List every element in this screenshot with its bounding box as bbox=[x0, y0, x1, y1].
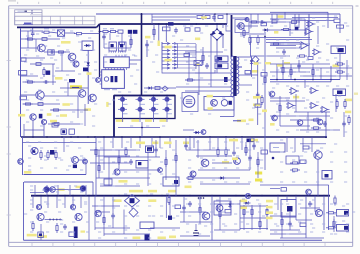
pin bus vertical x203 bbox=[202, 47, 204, 65]
transistor bbox=[165, 107, 169, 111]
yellow top 2 bbox=[284, 62, 290, 64]
sheet border inner bottom bbox=[9, 241, 353, 243]
yellow label bbox=[58, 188, 65, 191]
vertical x68 bbox=[67, 82, 69, 96]
vertical x336 bbox=[335, 94, 337, 112]
diode bbox=[194, 131, 201, 134]
yellow label bbox=[333, 65, 339, 68]
bridge rectifier diamond bbox=[211, 29, 223, 40]
yellow value label bbox=[55, 77, 63, 80]
yellow label top chain bbox=[201, 16, 207, 18]
capacitor bbox=[154, 147, 158, 153]
resistor bbox=[282, 65, 284, 75]
wire to bottom rail 2 bbox=[88, 208, 90, 240]
U2 dark bar 2 bbox=[115, 76, 118, 82]
yellow label bbox=[232, 158, 238, 161]
mid bus C bbox=[21, 136, 326, 138]
bus C end dot bbox=[325, 136, 327, 138]
U2 dark bar 1 bbox=[111, 76, 114, 82]
yellow label bbox=[158, 237, 166, 240]
junction dot bbox=[165, 23, 167, 25]
vertical x95b bbox=[94, 212, 96, 230]
vertical x152 stub bbox=[151, 14, 153, 24]
vertical x251b bbox=[250, 14, 252, 28]
connector pin wire 7 bbox=[178, 64, 197, 66]
diode bbox=[87, 61, 90, 68]
wire row y88 bbox=[144, 87, 176, 89]
resistor bbox=[243, 28, 245, 38]
verticals bbox=[63, 137, 65, 152]
op-amp bbox=[314, 49, 320, 55]
part bbox=[188, 177, 193, 180]
transistor bbox=[68, 53, 76, 61]
capacitor bbox=[102, 34, 106, 40]
yellow label TR4 bbox=[160, 119, 167, 122]
yellow label bbox=[119, 180, 128, 183]
grid column wire 2 bbox=[139, 96, 141, 119]
vertical yellow strip x157 bbox=[158, 41, 160, 47]
connector pin wire 1 bbox=[178, 43, 197, 45]
box part 2 dark fill bbox=[174, 180, 178, 184]
wire y104 bbox=[23, 103, 61, 105]
wire y150 bbox=[90, 149, 140, 151]
top bus A double segment bbox=[270, 11, 328, 13]
relay box K1 bbox=[331, 46, 346, 54]
yellow label bbox=[87, 72, 92, 75]
top margin zone mark 6 bbox=[122, 2, 123, 4]
pin bus vertical x196 bbox=[195, 44, 197, 69]
vertical x313 bbox=[312, 64, 314, 80]
capacitor bbox=[297, 63, 301, 69]
wire y17 from x152 bbox=[152, 16, 196, 18]
electrolytic dark bar bbox=[74, 227, 78, 239]
resistor on bus 2 bbox=[69, 129, 74, 134]
junction dot bbox=[264, 36, 266, 38]
yellow label bbox=[345, 99, 352, 102]
connector pin wire 2 bbox=[178, 46, 197, 48]
top margin zone mark 2 bbox=[38, 2, 39, 4]
dark component bbox=[39, 114, 43, 119]
vertical x299 bbox=[298, 14, 300, 28]
transistor bbox=[201, 159, 209, 167]
vertical x257.7 bbox=[257, 60, 259, 125]
optocoupler U3 dark fill bbox=[218, 57, 223, 60]
wire y39 bbox=[21, 38, 61, 40]
transistor bbox=[315, 209, 322, 216]
vertical V1 from bus B bbox=[99, 24, 101, 77]
junction dot bbox=[158, 23, 160, 25]
connector pin wire 5 bbox=[178, 57, 197, 59]
grid text dash bbox=[141, 103, 146, 105]
dark part bbox=[168, 22, 174, 25]
IC pin hatches top bbox=[115, 55, 117, 57]
resistor bbox=[311, 127, 321, 129]
title table outline bbox=[15, 16, 95, 25]
vertical x156 bbox=[155, 140, 157, 157]
resistor bbox=[217, 147, 219, 157]
wire y88 bbox=[60, 87, 88, 89]
revision table text dark dash bbox=[25, 10, 28, 12]
yellow strip 3 bbox=[168, 190, 176, 193]
verticals right lower bbox=[286, 137, 288, 152]
wire to V1 bbox=[84, 33, 100, 35]
vertical x53 bbox=[52, 64, 54, 85]
resistor bbox=[264, 75, 266, 85]
title table column divider bbox=[41, 16, 43, 25]
transistor bbox=[120, 107, 124, 111]
capacitor bbox=[111, 213, 115, 219]
vertical x326 down to bus C bbox=[325, 112, 327, 137]
transistor bbox=[211, 99, 218, 106]
resistor bbox=[257, 35, 259, 45]
title table column divider bbox=[32, 16, 34, 25]
bridge bend wires bbox=[223, 24, 232, 31]
yellow top 1 bbox=[265, 62, 271, 64]
wire y68 bbox=[280, 67, 352, 69]
verticals mid lower bbox=[189, 137, 191, 150]
dark mark bbox=[62, 130, 65, 133]
dark fill r1 bbox=[344, 211, 348, 215]
blue text label bbox=[236, 66, 242, 68]
vertical x305b bbox=[304, 19, 306, 36]
resistor bbox=[130, 37, 132, 47]
part x258 y104 bbox=[255, 104, 261, 107]
resistor bbox=[55, 150, 57, 160]
resistor bbox=[279, 103, 281, 113]
resistor bbox=[168, 195, 170, 205]
dark IC fill bbox=[147, 147, 152, 151]
vertical x296 bbox=[295, 94, 297, 112]
connector pin 2 bbox=[162, 46, 170, 48]
part bbox=[118, 30, 123, 33]
vertical x251.5 bbox=[251, 57, 253, 77]
wire degauss 2 bbox=[185, 90, 232, 92]
revision table text bbox=[18, 10, 25, 12]
connector pin wire 8 bbox=[178, 67, 197, 69]
title table column divider bbox=[82, 16, 84, 25]
posistor big circle bbox=[183, 96, 195, 108]
bridge right drop bbox=[222, 35, 224, 49]
relay box bbox=[204, 97, 234, 111]
resistor on bus bbox=[61, 129, 66, 134]
small box with X bbox=[194, 61, 202, 66]
vertical x78 bbox=[77, 96, 79, 118]
wire y20.5 right bbox=[296, 20, 334, 22]
connector pin 4 bbox=[162, 53, 170, 55]
text under IC bbox=[104, 89, 110, 91]
resistor R15 bbox=[163, 27, 171, 31]
wire above bus bbox=[183, 129, 194, 131]
wire drain bbox=[44, 95, 78, 97]
vertical x162 bbox=[165, 196, 167, 218]
dark diode D4 bbox=[83, 68, 88, 72]
U2 inner circle bbox=[104, 77, 108, 81]
yellow label top bbox=[278, 15, 284, 18]
dark cap blob 2 bbox=[133, 30, 137, 34]
long vertical x96 bbox=[95, 137, 97, 196]
vertical x328.6 bbox=[328, 185, 330, 230]
grid junction dot bbox=[139, 95, 141, 97]
box part bbox=[140, 222, 154, 229]
verticals bottom right bbox=[277, 196, 279, 210]
wire y178 bbox=[96, 177, 150, 179]
op-amp bbox=[288, 102, 294, 108]
IC pin hatches bottom bbox=[105, 68, 107, 70]
resistor bbox=[245, 145, 247, 155]
box top right mid bbox=[286, 156, 299, 164]
connector pin wire 4 bbox=[178, 53, 197, 55]
resistor bbox=[56, 51, 66, 53]
wire y58 bbox=[21, 57, 46, 59]
vertical x283 bbox=[282, 60, 284, 80]
resistor bbox=[290, 169, 300, 171]
vertical x119 bbox=[118, 150, 120, 169]
grid text dash bbox=[168, 103, 173, 105]
resistor bbox=[202, 53, 204, 63]
X in box bbox=[194, 61, 202, 66]
dark box bbox=[50, 150, 54, 155]
title table column divider bbox=[59, 16, 61, 25]
transformer secondary winding arcs bbox=[237, 57, 239, 94]
sheet border outer top bbox=[9, 5, 353, 7]
wire bbox=[270, 188, 280, 190]
grid text dash 2 bbox=[168, 113, 173, 115]
connector pin 5 bbox=[162, 56, 170, 58]
bottom zone tick 8 bbox=[178, 242, 180, 246]
part bbox=[155, 87, 160, 90]
wire bbox=[21, 47, 38, 49]
capacitor bbox=[248, 155, 252, 161]
secondary parts 2 bbox=[261, 73, 267, 77]
wire cluster bbox=[55, 70, 75, 72]
capacitor bbox=[49, 50, 55, 54]
transformer bottom wire left bbox=[220, 116, 234, 118]
resistor bbox=[257, 157, 259, 167]
top margin zone mark 11 bbox=[227, 2, 228, 4]
yellow label bbox=[47, 113, 52, 116]
bus row y81.8 bbox=[270, 81, 331, 83]
vertical x24b bbox=[23, 124, 25, 137]
vertical x331 bbox=[330, 66, 332, 82]
transistor bbox=[36, 91, 44, 99]
wire y130 bbox=[300, 129, 340, 131]
IC row B pins bbox=[108, 51, 110, 53]
wire right bottom bbox=[296, 219, 312, 221]
wire y170 bbox=[198, 169, 250, 171]
vertical x212 bottom bbox=[211, 196, 213, 241]
yellow label TR2 bbox=[131, 119, 139, 122]
top margin zone mark 3 bbox=[59, 2, 60, 4]
box part right bbox=[270, 143, 285, 152]
transistor bbox=[306, 189, 312, 195]
vertical x290b bbox=[289, 212, 291, 230]
bottom-left box right link bbox=[92, 182, 94, 196]
wire y228 bbox=[150, 227, 180, 229]
junction dot bbox=[216, 23, 218, 25]
wire y110 bbox=[50, 109, 88, 111]
bottom zone tick 5 bbox=[115, 242, 117, 246]
wire y212 bbox=[95, 211, 110, 213]
transformer top lead wire bbox=[238, 56, 252, 58]
wire y17.5 right bbox=[292, 17, 338, 19]
part bbox=[120, 42, 125, 45]
capacitor bbox=[252, 143, 256, 149]
capacitor bbox=[145, 42, 149, 48]
yellow label bottom mid bbox=[169, 236, 176, 239]
vertical x174b bbox=[177, 44, 179, 69]
vertical x62 bbox=[61, 52, 63, 71]
capacitor bbox=[129, 159, 133, 165]
capacitor bbox=[342, 121, 346, 127]
wire y230r bbox=[270, 229, 300, 231]
approval blue text bbox=[24, 22, 32, 24]
part bbox=[195, 28, 200, 31]
resistor bbox=[243, 207, 245, 217]
capacitor bbox=[43, 80, 49, 84]
vertical x154 bbox=[153, 24, 155, 40]
resistor bbox=[281, 28, 291, 30]
wire y212m bbox=[180, 211, 206, 213]
yellow label left bbox=[145, 36, 150, 39]
transistor bbox=[202, 212, 210, 220]
wire y64 bbox=[30, 63, 55, 65]
resistor grid box verticals bbox=[243, 205, 245, 230]
resistor bbox=[51, 109, 61, 111]
dark dot bbox=[272, 157, 275, 160]
thermistor box bbox=[48, 50, 54, 55]
title table column divider bbox=[74, 16, 76, 25]
wire y116 bbox=[270, 115, 330, 117]
vertical x196 bbox=[195, 224, 197, 231]
top margin zone mark 12 bbox=[248, 2, 249, 4]
vertical x36 bbox=[35, 39, 37, 52]
wire bbox=[96, 155, 130, 157]
transistor bbox=[80, 186, 86, 192]
bus A right corner drop bbox=[327, 12, 329, 28]
bottom zone tick 13 bbox=[282, 242, 284, 246]
yellow label Q41 bbox=[76, 186, 82, 188]
wire gate bbox=[21, 94, 36, 96]
yellow label bbox=[253, 104, 260, 107]
yellow label under bus 3 bbox=[164, 142, 172, 145]
connector pin 7 bbox=[162, 63, 170, 65]
yellow label bbox=[84, 108, 91, 111]
resistor bbox=[185, 79, 195, 81]
small parts cluster bbox=[52, 123, 58, 127]
transistor bbox=[245, 18, 249, 22]
box with dark blob bbox=[281, 200, 296, 218]
yellow small FET bbox=[81, 231, 86, 233]
wire y127 bbox=[118, 127, 160, 129]
box around Q45b bbox=[214, 201, 231, 215]
dark diode D3 bbox=[46, 71, 50, 75]
diode bbox=[228, 202, 231, 209]
diode bbox=[147, 86, 154, 89]
resistor bbox=[335, 63, 345, 65]
op-amp bbox=[322, 106, 328, 112]
top margin zone mark 5 bbox=[101, 2, 102, 4]
vertical x104b bbox=[103, 33, 105, 48]
connector diode 8 bbox=[172, 67, 178, 69]
resistor bbox=[175, 153, 177, 163]
vertical x88 bbox=[87, 50, 89, 104]
wire y178r bbox=[186, 177, 240, 179]
yellow label bbox=[251, 70, 258, 73]
vertical x176 bbox=[175, 140, 177, 196]
vertical x308 bbox=[307, 112, 309, 130]
connector pin 6 bbox=[162, 60, 170, 62]
IC row B dark fill 2 bbox=[120, 44, 123, 47]
resistor bbox=[56, 223, 58, 233]
vertical x277 bbox=[276, 14, 278, 22]
part bbox=[292, 21, 297, 24]
wires under Q6 bbox=[32, 120, 34, 137]
wires right mid bbox=[270, 100, 305, 102]
vertical x299b bbox=[298, 60, 300, 72]
vertical x334 bbox=[333, 216, 335, 232]
wire y163 bbox=[90, 162, 130, 164]
optocoupler U4 dark fill bbox=[218, 64, 223, 67]
sheet border right bbox=[352, 6, 354, 247]
junction dot bbox=[141, 127, 143, 129]
vertical V2 from bus B to output grid bbox=[141, 14, 143, 96]
transistor bbox=[83, 159, 88, 164]
line filter X-cap box bbox=[58, 30, 65, 36]
yellow label bbox=[253, 96, 261, 99]
junction dot row bbox=[49, 219, 51, 221]
diode bbox=[250, 59, 253, 66]
vertical x340 down bbox=[339, 54, 341, 80]
grid text dash 2 bbox=[154, 113, 159, 115]
resistor bbox=[199, 205, 201, 215]
yellow label bbox=[195, 38, 200, 41]
left sub-box top bbox=[23, 142, 97, 144]
diode bbox=[219, 176, 226, 179]
vertical x295 bbox=[294, 14, 296, 30]
top margin zone mark 10 bbox=[206, 2, 207, 4]
connector diode 3 bbox=[172, 49, 178, 51]
left box left edge bbox=[20, 29, 22, 138]
bridge2 dark center bbox=[130, 198, 135, 203]
diode bbox=[84, 44, 91, 47]
small part bbox=[272, 20, 277, 23]
resistor bbox=[40, 150, 42, 160]
yellow label mid bbox=[222, 161, 229, 164]
driver box U2 bbox=[102, 70, 125, 89]
resistor bbox=[219, 209, 221, 219]
yellow label bbox=[240, 200, 247, 203]
wire y143.8 bbox=[300, 143, 326, 145]
vertical x285 bbox=[284, 12, 286, 19]
vertical x28 bbox=[27, 31, 29, 48]
op-amp bbox=[308, 21, 314, 27]
junction dot row 2 bbox=[198, 197, 200, 199]
connector pin 8 bbox=[162, 67, 170, 69]
wire y184 bbox=[200, 183, 250, 185]
resistor bbox=[271, 43, 281, 45]
resistor bbox=[118, 155, 120, 165]
bottom-left box top bbox=[24, 181, 93, 183]
yellow label TR3 bbox=[145, 119, 152, 122]
wire y72 bbox=[270, 71, 310, 73]
yellow label bbox=[18, 114, 25, 117]
wire y48 bbox=[276, 47, 300, 49]
dark cap bbox=[224, 77, 228, 82]
junction dots on bus C bbox=[32, 136, 34, 138]
junction dot bbox=[32, 27, 34, 29]
part bbox=[54, 123, 59, 126]
yellow label bbox=[60, 114, 67, 117]
